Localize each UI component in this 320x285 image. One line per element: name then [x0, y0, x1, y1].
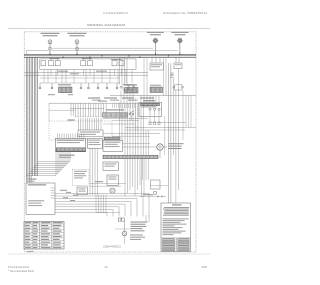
wire tags bottom runs	[66, 191, 71, 194]
switch contacts row	[39, 83, 118, 89]
EOC caption	[59, 155, 75, 156]
wire lock harness	[96, 195, 120, 213]
svg-text:CB6449EG2: CB6449EG2	[103, 245, 122, 249]
wire lock feed runs	[60, 181, 126, 191]
infinite switch pair	[111, 59, 124, 66]
wire run y130	[125, 129, 185, 131]
wire feeds right	[144, 57, 166, 95]
terminal block TB1	[174, 63, 182, 69]
wire run y108	[70, 107, 104, 109]
timer plug pins	[149, 117, 160, 125]
wire run y103	[49, 102, 160, 104]
left note text	[29, 179, 37, 180]
surface unit block	[41, 61, 46, 66]
wire center risers	[120, 57, 160, 103]
bake element label	[58, 84, 71, 85]
indicator lamp L2	[75, 40, 79, 54]
wire run y124	[103, 123, 135, 125]
wire feeds to switch row	[44, 69, 132, 83]
fan motor M1	[152, 38, 158, 55]
wire stubs under relays	[51, 69, 122, 75]
timer label	[143, 100, 155, 101]
wire run y110	[49, 109, 75, 111]
terminal strip TS1	[103, 155, 158, 158]
svg-text:-19-: -19-	[104, 266, 109, 269]
convection motor M3	[157, 144, 167, 158]
latch motor M4	[110, 188, 115, 193]
wire run y72	[24, 72, 148, 74]
wire L2 line	[24, 56, 196, 58]
header rule	[8, 28, 210, 30]
connector strip label	[106, 109, 124, 110]
wire bottom bundle	[55, 193, 149, 216]
svg-text:0205: 0205	[201, 266, 207, 269]
broil element label	[124, 84, 137, 85]
door lock label block	[130, 222, 148, 240]
electronic oven control EOC	[55, 138, 85, 151]
thermal switch	[173, 85, 184, 90]
display board	[87, 138, 102, 148]
relay board K4	[103, 140, 123, 151]
note markers	[48, 94, 55, 95]
wire L1 line	[24, 53, 196, 55]
timer T1	[139, 103, 162, 117]
lower oven dashed enclosure	[49, 121, 112, 140]
hidden bake relay	[151, 180, 161, 189]
notes legend text	[161, 203, 191, 252]
wire run y127	[125, 126, 196, 128]
wire relay feeds	[152, 57, 179, 63]
svg-text:* Non-Illustrated Parts: * Non-Illustrated Parts	[8, 270, 35, 273]
footer rule	[8, 253, 210, 255]
wire harness left bus	[26, 57, 37, 182]
indicator lamp L1	[48, 40, 52, 54]
convection motor label	[169, 143, 184, 149]
wire lamp1 to bus	[26, 50, 48, 52]
wire lock drops	[115, 215, 149, 229]
wire right harness	[165, 63, 191, 203]
fan motor M2	[177, 38, 183, 55]
lock switch	[77, 187, 88, 195]
enclosure label	[68, 119, 75, 120]
EOC pin header	[58, 134, 84, 139]
wire run y122	[150, 122, 186, 124]
wire run y78	[40, 77, 120, 79]
svg-text:# Functional Parts: # Functional Parts	[8, 266, 30, 269]
control compartment box	[40, 59, 136, 69]
power terminal block	[26, 183, 55, 214]
wire label tags	[58, 71, 68, 72]
fan motor labels	[147, 32, 189, 36]
indicator lamp labels	[41, 33, 87, 37]
oven selector switch	[123, 85, 134, 91]
schematic outer border	[24, 32, 196, 252]
broil element	[125, 88, 139, 94]
door lock assembly	[72, 169, 89, 185]
warmer element	[150, 87, 163, 93]
relay KB	[81, 57, 93, 65]
wire display drops	[90, 148, 98, 195]
wire run y95	[110, 94, 196, 96]
wiring code table	[161, 238, 191, 252]
transformer T2	[103, 162, 119, 170]
oven light switch labels	[88, 97, 154, 100]
wire N line	[24, 55, 196, 57]
svg-text:WIRING DIAGRAM: WIRING DIAGRAM	[87, 23, 126, 27]
svg-text:COLEF398CS: COLEF398CS	[103, 11, 128, 15]
wire ladder lower	[79, 118, 102, 130]
wire color code table	[24, 221, 64, 249]
door switch S1	[129, 111, 134, 121]
wire run y120	[112, 119, 139, 121]
wire right mid drops	[146, 130, 168, 186]
wire tick row	[113, 103, 135, 108]
relay K3 right	[150, 63, 164, 70]
connector strip P2	[103, 113, 128, 118]
lock connector pair	[118, 218, 124, 221]
wire center bundle	[125, 159, 143, 196]
wire run y136	[112, 135, 150, 137]
door lock motor M5	[122, 221, 127, 244]
bake element	[59, 87, 73, 93]
wire switch feeder	[40, 82, 120, 84]
wire ladder to oven connector	[71, 103, 107, 117]
selector contacts	[120, 86, 135, 88]
warmer element label	[150, 85, 161, 86]
relay board label	[104, 137, 120, 140]
wire center drops	[120, 103, 144, 155]
junction dots on supply	[49, 54, 180, 58]
wire run y118	[103, 117, 148, 119]
wire run y75	[24, 74, 148, 76]
wire staircase to EOC	[26, 152, 70, 176]
latch motor driver	[107, 175, 119, 185]
dashed riser pair	[135, 98, 137, 132]
wire run y133	[103, 133, 160, 135]
wire motor feed	[123, 146, 157, 148]
table footnote	[27, 251, 34, 252]
wire lamp interconnect	[52, 47, 153, 49]
ground symbol right	[170, 73, 173, 77]
lower connector J1	[78, 130, 103, 137]
relay KA	[49, 57, 61, 65]
svg-text:Publication No. 5995435314: Publication No. 5995435314	[163, 11, 207, 15]
wire lower right run	[140, 159, 166, 198]
